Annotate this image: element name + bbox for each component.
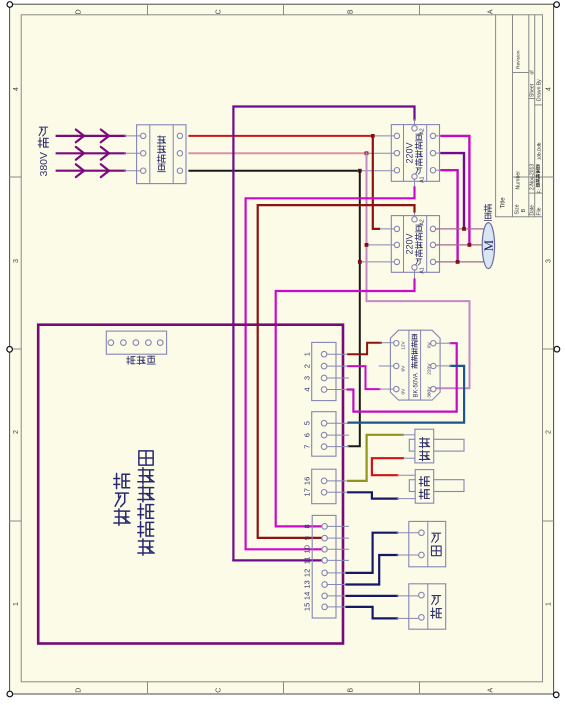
connector J6 speed-regulator box xyxy=(106,331,166,354)
transformer T1 BK-50VA box xyxy=(390,330,440,400)
svg-text:D: D xyxy=(75,9,82,14)
wire stubs strip J4 pins 8-11 xyxy=(327,525,349,527)
wire phase B pink L2 xyxy=(189,152,364,154)
svg-text:F:: F: xyxy=(537,189,542,193)
svg-text:Title: Title xyxy=(501,197,507,209)
svg-text:Sheet: Sheet xyxy=(530,83,536,97)
svg-text:Revision: Revision xyxy=(516,50,522,69)
svg-text:of: of xyxy=(530,70,536,75)
label return-knife xyxy=(432,533,441,542)
svg-text:4: 4 xyxy=(545,87,552,91)
terminal strip J1 pins 1-4 xyxy=(312,342,336,400)
wire dark-red phase A drop to KM2 xyxy=(373,136,379,229)
label board title line2 xyxy=(139,451,153,465)
svg-text:A2: A2 xyxy=(419,219,425,225)
svg-text:13: 13 xyxy=(302,580,311,588)
svg-text:15: 15 xyxy=(302,603,311,611)
svg-text:12V: 12V xyxy=(400,340,406,349)
wire 380V phase L3 input arrow xyxy=(57,170,125,172)
contactor KM2 box 220V AC xyxy=(391,216,439,273)
junction motor feed 2 xyxy=(468,243,472,247)
svg-text:10b.Ddb: 10b.Ddb xyxy=(537,142,542,160)
wire KM1 T1 magenta to motor xyxy=(436,135,442,137)
svg-text:2: 2 xyxy=(302,364,311,368)
svg-text:2: 2 xyxy=(545,430,552,434)
wire net A1-KM1 magenta xyxy=(414,179,416,187)
junction phase B at x366.5 xyxy=(365,151,369,155)
wire stubs strip J1 xyxy=(327,353,349,355)
actuator cut-knife box xyxy=(409,584,446,629)
wire black phase C drop xyxy=(349,171,360,447)
wire stub KM2 pin L1 xyxy=(379,228,394,230)
wire stubs strip J3 xyxy=(327,480,349,482)
svg-text:B: B xyxy=(347,688,354,693)
svg-text:B: B xyxy=(347,9,354,14)
motor M1 ellipse xyxy=(482,223,494,269)
wire navy pin14 to cut-knife+ xyxy=(347,595,398,597)
svg-text:10: 10 xyxy=(302,545,311,553)
svg-text:A1: A1 xyxy=(419,267,425,273)
svg-text:Number: Number xyxy=(516,171,522,190)
svg-text:A2: A2 xyxy=(419,128,425,134)
svg-text:A: A xyxy=(487,9,494,14)
svg-text:220V: 220V xyxy=(405,142,415,163)
terminal strip J4 pins 8-15 xyxy=(312,515,336,618)
svg-text:4: 4 xyxy=(13,87,20,91)
wire pin5 to 220V steel blue xyxy=(349,366,465,423)
wire stubs strip J4 pins 12-15 xyxy=(327,572,347,574)
svg-text:220V: 220V xyxy=(405,233,415,254)
label KM1 AC-contactor xyxy=(415,134,422,141)
junction phase A at x372.8 xyxy=(371,134,375,138)
contactor KM1 box 220V AC xyxy=(391,125,439,182)
svg-text:17: 17 xyxy=(302,488,311,496)
wire pin4 to 0V-right magenta under route xyxy=(348,343,457,411)
wire pale-violet phase B drop xyxy=(367,153,470,388)
wire stub 380V right xyxy=(436,387,437,389)
svg-text:Size: Size xyxy=(514,204,520,214)
wire stubs strip J2 xyxy=(327,422,349,424)
zone tick marks xyxy=(10,176,22,178)
wire pin1 to 12V dark red xyxy=(348,353,350,355)
wire navy pin12 to return-knife+ xyxy=(347,533,398,573)
label board title line1 xyxy=(114,473,130,488)
wire stub 6V open xyxy=(379,365,393,367)
wire stub KM2 pin L2 xyxy=(369,244,394,246)
junction black to KM2 L3 xyxy=(358,260,362,264)
wire navy pin17 to fuse xyxy=(348,492,397,498)
svg-text:1: 1 xyxy=(302,352,311,356)
label transformer control-transformer xyxy=(412,334,418,340)
wire navy pin13 to return-knife- xyxy=(347,555,398,585)
svg-text:16: 16 xyxy=(302,477,311,485)
svg-text:4: 4 xyxy=(302,387,311,391)
main control board outline xyxy=(38,325,343,644)
label KM2 AC-contactor xyxy=(415,225,422,232)
label power-switch xyxy=(157,136,165,144)
junction pale-violet to KM2 L2 xyxy=(365,243,369,247)
terminal strip J3 pins 16-17 xyxy=(312,469,336,504)
wire KM2 T1 to motor xyxy=(436,228,484,230)
svg-text:12: 12 xyxy=(302,569,311,577)
svg-text:2-Nov-2013: 2-Nov-2013 xyxy=(530,164,536,190)
wire phase C black L3 xyxy=(189,170,358,172)
label fuse xyxy=(419,476,429,486)
label cut-knife xyxy=(432,596,441,605)
svg-text:9: 9 xyxy=(302,536,311,540)
svg-text:B: B xyxy=(521,209,527,213)
fuse F1 body xyxy=(409,480,464,492)
svg-text:220V: 220V xyxy=(427,363,433,375)
svg-text:C: C xyxy=(215,688,222,693)
wire net A2-KM1 dark purple xyxy=(233,107,414,561)
svg-text:BK-50VA: BK-50VA xyxy=(413,373,419,397)
title block outline xyxy=(495,15,497,217)
svg-text:380V: 380V xyxy=(38,152,50,177)
junction phase C at x359.8 xyxy=(358,169,362,173)
svg-text:3: 3 xyxy=(302,376,311,380)
wire KM2 T3 to motor xyxy=(436,261,484,263)
svg-text:3: 3 xyxy=(13,259,20,263)
wire net A2-KM2 dark red xyxy=(414,212,416,217)
junction motor feed 1 xyxy=(462,227,466,231)
wire KM1 T2 purple to motor xyxy=(436,152,442,154)
svg-text:7: 7 xyxy=(302,445,311,449)
svg-text:A1: A1 xyxy=(419,176,425,182)
label speed-regulator xyxy=(127,356,135,364)
svg-text:A: A xyxy=(487,688,494,693)
wire KM2 T2 to motor xyxy=(436,244,484,246)
svg-text:Date: Date xyxy=(530,205,536,216)
svg-text:8: 8 xyxy=(302,524,311,528)
wire 380V phase L2 input arrow xyxy=(57,152,125,154)
svg-text:File: File xyxy=(536,207,542,215)
wire phase A red L1 xyxy=(189,135,371,137)
label motor name xyxy=(484,204,492,211)
label switch xyxy=(419,438,430,449)
switch SW1 body xyxy=(409,439,464,451)
wire 380V phase L1 input arrow xyxy=(57,135,125,137)
svg-text:3: 3 xyxy=(545,259,552,263)
wire stub KM2 pin L3 xyxy=(362,261,394,263)
svg-text:D: D xyxy=(75,688,82,693)
svg-text:0V: 0V xyxy=(427,342,433,349)
svg-text:6: 6 xyxy=(302,433,311,437)
svg-text:M: M xyxy=(481,240,496,252)
svg-text:5: 5 xyxy=(302,421,311,425)
svg-text:14: 14 xyxy=(302,592,311,600)
wire KM1 T3 magenta to motor xyxy=(436,169,442,171)
svg-text:Drawn By: Drawn By xyxy=(536,79,542,101)
svg-text:1: 1 xyxy=(545,602,552,606)
svg-text:380V: 380V xyxy=(427,386,433,398)
actuator return-knife box xyxy=(409,521,446,566)
terminal strip J2 pins 5-7 xyxy=(312,412,336,457)
wire navy pin15 to cut-knife- xyxy=(347,607,398,619)
junction motor feed 3 xyxy=(456,260,460,264)
svg-text:2: 2 xyxy=(13,430,20,434)
svg-text:11: 11 xyxy=(302,557,311,565)
power switch S1 box xyxy=(137,125,186,184)
svg-text:6V: 6V xyxy=(400,365,406,372)
wire pin2 to 0V-left magenta xyxy=(348,366,379,389)
svg-text:0V: 0V xyxy=(400,388,406,395)
wire red switch to fuse xyxy=(403,457,415,459)
corner and midpoint registration circles xyxy=(7,2,13,8)
svg-text:1: 1 xyxy=(13,602,20,606)
wire olive pin16 to switch xyxy=(348,435,403,481)
wire net A1-KM2 magenta xyxy=(414,270,416,279)
svg-text:C: C xyxy=(215,9,222,14)
